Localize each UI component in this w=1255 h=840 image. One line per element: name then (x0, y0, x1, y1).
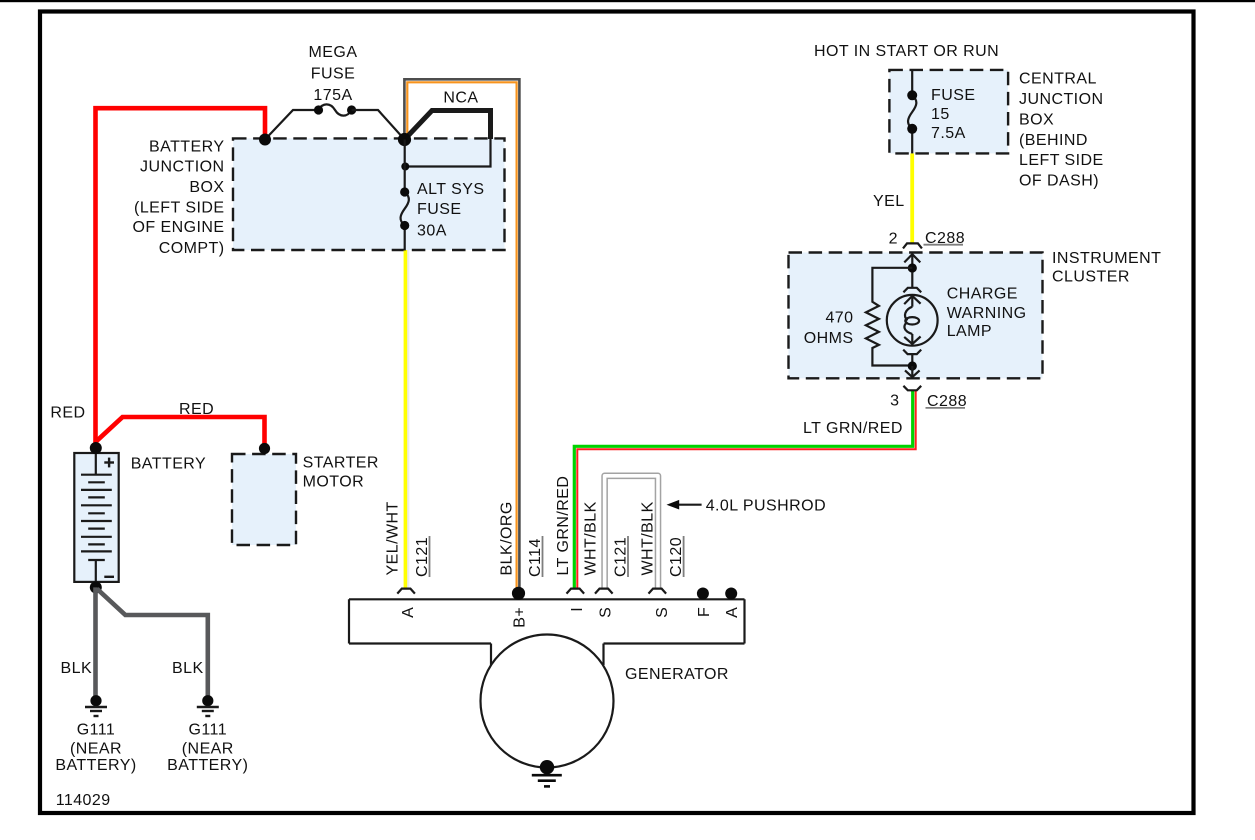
svg-text:A: A (400, 607, 417, 618)
fuse FUSE 15 7.5A element (908, 95, 916, 129)
svg-text:BATTERY): BATTERY) (167, 757, 248, 774)
starter motor box (232, 454, 296, 545)
svg-text:30A: 30A (417, 222, 447, 239)
lamp CHARGE WARNING LAMP circle (887, 295, 938, 346)
svg-text:C121: C121 (613, 537, 630, 577)
ground G111 right (197, 695, 219, 716)
svg-text:CENTRAL: CENTRAL (1019, 70, 1097, 87)
svg-text:175A: 175A (313, 87, 352, 104)
svg-text:C121: C121 (414, 537, 431, 577)
svg-text:LAMP: LAMP (947, 323, 992, 340)
svg-text:JUNCTION: JUNCTION (140, 159, 224, 176)
lamp socket top connector (903, 288, 921, 293)
node battery negative (90, 581, 102, 593)
wire BLK/ORG orange line (407, 82, 516, 593)
wire BLK left ground (93, 587, 98, 698)
svg-text:A: A (724, 607, 741, 618)
wire BLK right ground (97, 589, 208, 698)
svg-text:BLK: BLK (172, 660, 204, 677)
svg-text:WARNING: WARNING (947, 305, 1027, 322)
4.0L PUSHROD callout arrow (676, 504, 702, 506)
svg-text:WHT/BLK: WHT/BLK (583, 501, 600, 575)
wire mega fuse right lead (352, 110, 405, 140)
node cjb fuse top dot (907, 90, 917, 100)
svg-text:S: S (654, 607, 671, 618)
svg-text:4.0L PUSHROD: 4.0L PUSHROD (706, 498, 826, 515)
svg-text:LT GRN/RED: LT GRN/RED (555, 476, 572, 576)
wire RED battery to starter motor (96, 417, 265, 449)
svg-text:CHARGE: CHARGE (947, 285, 1018, 302)
svg-text:FUSE: FUSE (417, 201, 461, 218)
svg-text:WHT/BLK: WHT/BLK (639, 501, 656, 575)
svg-text:15: 15 (931, 106, 950, 123)
svg-text:LEFT SIDE: LEFT SIDE (1019, 152, 1104, 169)
svg-text:(NEAR: (NEAR (70, 740, 122, 757)
svg-text:OF DASH): OF DASH) (1019, 173, 1099, 190)
svg-text:COMPT): COMPT) (159, 240, 225, 257)
lamp bottom pin arrow (911, 334, 913, 344)
svg-text:2: 2 (889, 231, 898, 248)
svg-text:470: 470 (825, 309, 853, 326)
svg-text:3: 3 (890, 393, 899, 410)
svg-text:LT GRN/RED: LT GRN/RED (803, 420, 903, 437)
svg-text:HOT IN START OR RUN: HOT IN START OR RUN (814, 43, 999, 60)
svg-text:I: I (569, 607, 586, 612)
svg-text:BOX: BOX (1019, 111, 1054, 128)
svg-text:OHMS: OHMS (804, 330, 854, 347)
fuse MEGA FUSE 175A element (319, 104, 352, 115)
generator terminal letters (400, 607, 741, 628)
node cluster top junction (908, 263, 917, 272)
central junction box (fuse box) (889, 70, 1008, 153)
wire BLK/ORG gray line (404, 79, 519, 593)
cluster male pin arrow bottom (911, 366, 913, 377)
wire LT GRN/RED green line (574, 391, 912, 589)
svg-text:RED: RED (50, 405, 85, 422)
cluster male pin arrow top (911, 254, 913, 268)
svg-text:(BEHIND: (BEHIND (1019, 132, 1088, 149)
node junction red/fuse (259, 134, 271, 146)
svg-text:MOTOR: MOTOR (303, 473, 365, 490)
svg-text:F: F (696, 607, 713, 617)
svg-text:G111: G111 (77, 722, 116, 739)
wire lamp to bottom node (911, 355, 913, 366)
battery symbol (74, 453, 118, 582)
svg-text:NCA: NCA (443, 89, 478, 106)
wire LT GRN/RED red stripe (577, 391, 915, 589)
lamp wire dot to socket (911, 272, 913, 287)
svg-text:INSTRUMENT: INSTRUMENT (1052, 250, 1161, 267)
wire alt sys fuse vertical (404, 140, 406, 193)
svg-text:BATTERY): BATTERY) (55, 757, 136, 774)
svg-text:C114: C114 (527, 538, 544, 577)
svg-text:OF ENGINE: OF ENGINE (132, 219, 224, 236)
svg-text:YEL: YEL (873, 193, 905, 210)
connector at generator S1 (595, 589, 613, 594)
label G111 right (167, 722, 248, 775)
svg-text:CLUSTER: CLUSTER (1052, 269, 1130, 286)
svg-text:YEL/WHT: YEL/WHT (384, 501, 401, 575)
svg-text:BATTERY: BATTERY (131, 456, 206, 473)
instrument cluster box (789, 253, 1043, 379)
wire cjb fuse vertical top (911, 70, 913, 95)
svg-text:BLK/ORG: BLK/ORG (498, 501, 515, 575)
svg-text:FUSE: FUSE (931, 87, 975, 104)
ground G111 left (85, 695, 107, 716)
lamp socket bottom connector (903, 350, 921, 355)
battery minus sign (104, 576, 114, 578)
svg-text:G111: G111 (189, 722, 228, 739)
svg-text:114029: 114029 (56, 792, 111, 809)
node NCA junction (401, 163, 409, 171)
node starter motor terminal (259, 443, 270, 454)
node generator F (697, 588, 709, 600)
battery plus sign (104, 458, 114, 468)
svg-text:BOX: BOX (189, 179, 224, 196)
svg-text:JUNCTION: JUNCTION (1019, 91, 1103, 108)
top edge line (0, 0, 1255, 2)
resistor 470 OHMS branch (866, 268, 912, 366)
wire YEL/WHT junction box to generator (407, 250, 409, 588)
node mega fuse left dot (314, 105, 323, 114)
connector at generator A (397, 589, 415, 594)
wire mega fuse left lead (265, 110, 319, 140)
battery internal plates (81, 453, 112, 582)
node generator A2 (725, 588, 737, 600)
svg-text:C120: C120 (668, 537, 685, 577)
node junction main (398, 133, 411, 146)
svg-text:BATTERY: BATTERY (149, 139, 224, 156)
svg-text:STARTER: STARTER (303, 455, 379, 472)
node alt fuse top dot (400, 187, 409, 196)
wire NCA thick (405, 111, 491, 140)
wire WHT/BLK loop generator S terminals (605, 476, 658, 589)
wire YEL fuse to cluster (910, 153, 914, 242)
svg-text:B+: B+ (511, 607, 528, 628)
node mega fuse right dot (347, 105, 356, 114)
connector at generator I (567, 589, 585, 594)
svg-text:(NEAR: (NEAR (182, 740, 234, 757)
lamp top pin arrow (911, 295, 913, 306)
svg-text:7.5A: 7.5A (931, 125, 966, 142)
connector at generator S2 (649, 589, 667, 594)
wire cjb fuse vertical bottom (911, 129, 913, 154)
lamp filament (905, 307, 912, 321)
connector C288 pin 3 (903, 386, 921, 391)
wire NCA thin return (405, 138, 491, 167)
wire below alt fuse (404, 226, 406, 251)
battery junction box (233, 138, 505, 250)
node cjb fuse bottom dot (907, 124, 917, 134)
svg-text:(LEFT SIDE: (LEFT SIDE (134, 199, 224, 216)
svg-text:MEGA: MEGA (309, 44, 358, 61)
node battery positive (90, 442, 102, 454)
wire RED battery to junction box (96, 108, 266, 448)
svg-text:FUSE: FUSE (311, 65, 355, 82)
generator circle (481, 635, 614, 768)
svg-text:S: S (597, 607, 614, 618)
node alt fuse bottom dot (400, 221, 409, 230)
svg-text:BLK: BLK (61, 660, 93, 677)
connector C288 pin 2 (903, 243, 922, 248)
svg-text:ALT SYS: ALT SYS (417, 181, 484, 198)
svg-text:GENERATOR: GENERATOR (625, 666, 729, 683)
fuse ALT SYS FUSE 30A element (401, 192, 409, 226)
node generator B+ (512, 587, 525, 600)
generator ground (540, 760, 554, 774)
svg-text:RED: RED (179, 401, 214, 418)
generator body (349, 599, 745, 665)
node cluster bottom junction (908, 361, 917, 370)
label G111 left (55, 722, 136, 775)
battery junction box label (132, 139, 224, 257)
